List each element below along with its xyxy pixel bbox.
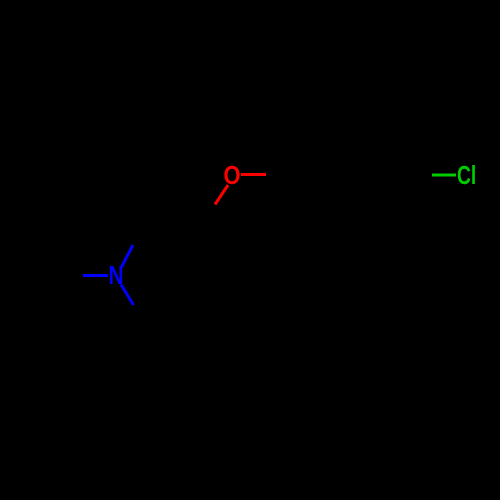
- bond N-CH2 ethyl down (blue half): [121, 285, 134, 306]
- bond N-CH2 ethyl left (blue half): [83, 274, 108, 277]
- bond N-CH2 chain up (blue half): [122, 245, 134, 267]
- svg-text:N: N: [108, 261, 123, 290]
- svg-text:O: O: [224, 161, 241, 190]
- svg-text:Cl: Cl: [457, 160, 476, 190]
- bond C4-Cl (green half): [432, 174, 456, 177]
- bond O-C1 aryl (red half): [241, 173, 266, 176]
- bond O-CH2 alkyl (red half): [215, 185, 228, 205]
